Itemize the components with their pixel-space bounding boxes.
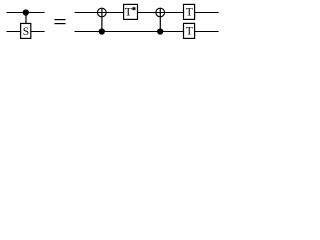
svg-text:T: T [186,7,193,19]
svg-text:T: T [125,7,132,19]
svg-text:T: T [186,26,193,38]
svg-text:S: S [23,26,29,38]
